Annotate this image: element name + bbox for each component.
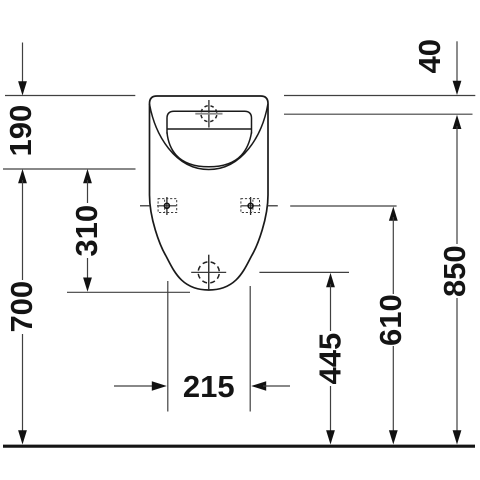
extension line top-right lower (inlet center, y=114.2) bbox=[284, 113, 473, 115]
dimension 310 line at x=87.5 bbox=[83, 169, 92, 183]
svg-text:850: 850 bbox=[437, 245, 472, 297]
outlet crosshair vertical bbox=[208, 255, 210, 290]
dimension 190/700 line at x=22.5 bbox=[22, 43, 24, 84]
urinal shelf curve (outer bowl edge) bbox=[150, 104, 268, 170]
outlet crosshair horizontal bbox=[191, 271, 226, 273]
floor line bbox=[3, 445, 475, 448]
left fixing hole bbox=[140, 197, 177, 215]
extension line top-left (top of urinal, y=95.5) bbox=[5, 95, 135, 97]
dimension 610 line at x=393.3 bbox=[389, 207, 398, 221]
urinal inner rim (basin opening) bbox=[167, 111, 252, 133]
urinal outer outline bbox=[150, 96, 269, 290]
extension line left (shelf bottom, y=169) bbox=[3, 168, 136, 170]
extension line 215 right vertical bbox=[249, 286, 251, 412]
svg-text:700: 700 bbox=[4, 281, 39, 333]
inlet dashed circle bbox=[201, 106, 217, 122]
svg-text:310: 310 bbox=[69, 205, 104, 257]
urinal inner bowl curve bbox=[167, 133, 252, 167]
outlet dashed circle bbox=[198, 262, 219, 283]
dimension 445 line at x=330.5 bbox=[326, 273, 335, 287]
svg-text:40: 40 bbox=[412, 39, 447, 73]
svg-text:445: 445 bbox=[312, 333, 347, 385]
extension line right (outlet center, y=272.4) bbox=[259, 271, 349, 273]
svg-text:190: 190 bbox=[3, 105, 38, 157]
inlet crosshair horizontal (gray) bbox=[195, 113, 222, 115]
dimension 40/850 line at x=457 bbox=[456, 41, 458, 82]
svg-text:215: 215 bbox=[183, 369, 235, 404]
extension line bottom-left (bottom of urinal, y=292.3) bbox=[67, 291, 190, 293]
inlet crosshair vertical bbox=[208, 100, 210, 128]
svg-text:610: 610 bbox=[373, 294, 408, 346]
urinal shelf line (back wall edge) bbox=[167, 128, 252, 130]
right fixing hole bbox=[241, 197, 278, 215]
dimension 215 horizontal arrows at y=386 bbox=[114, 385, 155, 387]
extension line top-right upper (top of urinal, y=95.4) bbox=[284, 95, 475, 97]
extension line right (fixing holes, y=206) bbox=[290, 205, 396, 207]
extension line 215 left vertical bbox=[167, 281, 169, 412]
